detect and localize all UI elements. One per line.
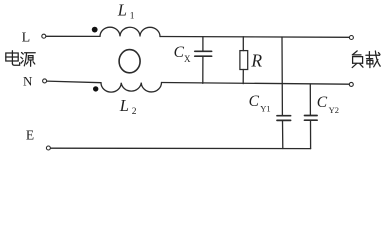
wire CY2 branch lower (to E line corner) [310, 120, 312, 148]
svg-text:C: C [317, 94, 328, 111]
svg-text:Y2: Y2 [329, 105, 339, 115]
wire CY1 branch upper (from L line, crossing N line) [281, 37, 283, 116]
capacitor CX [195, 51, 212, 56]
wire R branch upper [242, 37, 244, 51]
label CX [174, 44, 191, 64]
terminal E (left, earth) [46, 146, 50, 150]
terminal N (right, to load) [349, 82, 353, 86]
wire CX branch lower [202, 56, 204, 83]
polarity dot of L1 [92, 27, 98, 33]
label N (neutral terminal) [23, 73, 33, 88]
载 [366, 54, 380, 56]
label L1 [117, 0, 135, 21]
svg-text:L: L [117, 0, 127, 19]
label 电源 (power source), hand-drawn glyph strokes [6, 51, 35, 66]
svg-text:L: L [119, 96, 129, 115]
svg-text:2: 2 [132, 107, 137, 117]
label E (earth terminal) [26, 127, 34, 142]
svg-text:Y1: Y1 [260, 103, 270, 113]
wire N-in to L2 [47, 81, 101, 83]
负 [352, 51, 357, 55]
label CY1 [249, 93, 271, 113]
label L2 [119, 96, 137, 117]
label CY2 [317, 94, 339, 115]
wire L-in to L1 [46, 35, 100, 37]
capacitor CY2 [305, 116, 318, 121]
svg-text:C: C [174, 44, 185, 61]
wire L2 to load terminal [162, 83, 350, 85]
inductor L2 (common-mode choke bottom winding) [101, 83, 162, 93]
svg-text:X: X [184, 54, 191, 64]
svg-text:N: N [23, 73, 33, 88]
源 [22, 53, 24, 55]
magnetic core (circle between L1 and L2) [119, 50, 140, 73]
resistor R [240, 51, 248, 70]
svg-text:C: C [249, 93, 260, 110]
terminal L (right, to load) [349, 36, 353, 40]
terminal N (left) [43, 79, 47, 83]
terminal L (left, line input) [42, 34, 46, 38]
label 负载 (load), hand-drawn glyph strokes [352, 51, 380, 68]
svg-text:E: E [26, 127, 34, 142]
inductor L1 (common-mode choke top winding) [100, 27, 160, 36]
wire CY2 branch upper (from N line) [309, 84, 311, 115]
wire E line [51, 147, 311, 149]
label L (line terminal) [22, 31, 31, 46]
svg-text:L: L [22, 31, 31, 46]
wire CX branch upper [202, 37, 204, 52]
label R [250, 50, 262, 70]
polarity dot of L2 [93, 86, 98, 91]
svg-text:1: 1 [130, 12, 135, 22]
wire CY1 branch lower (to E line) [282, 121, 284, 149]
wire R branch lower [242, 70, 244, 84]
电 [6, 53, 18, 61]
wire L1 to load terminal [160, 36, 349, 39]
capacitor CY1 [277, 116, 291, 121]
svg-text:R: R [250, 50, 262, 70]
